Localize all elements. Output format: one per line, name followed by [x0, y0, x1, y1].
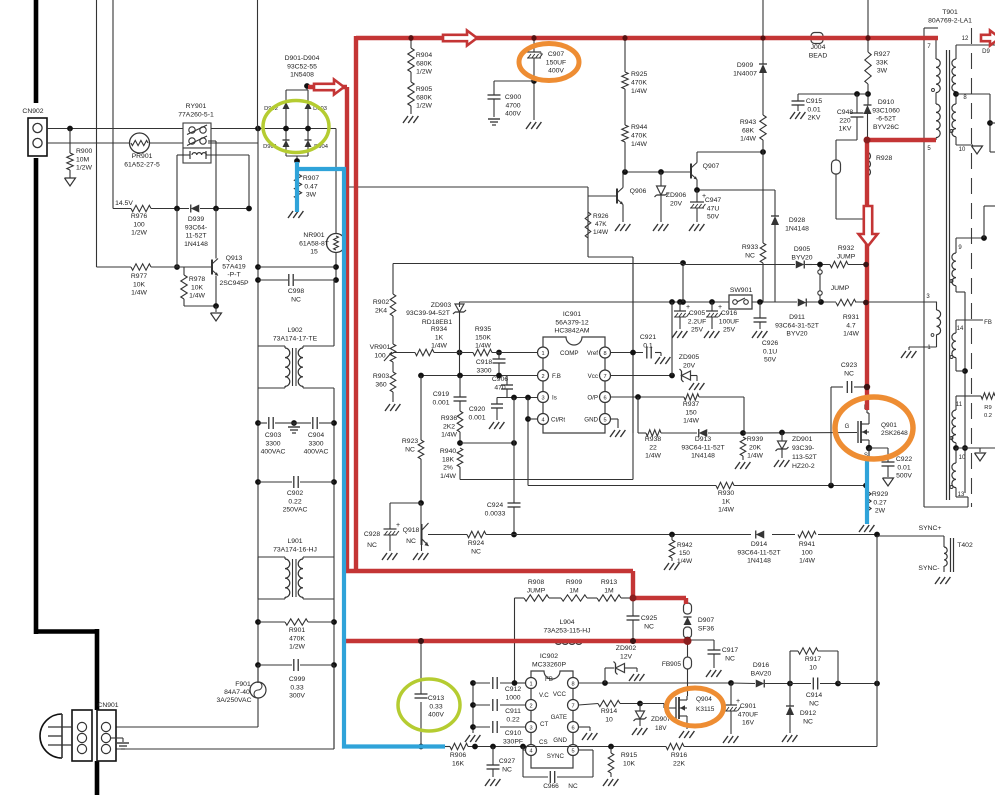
ground T901 pin1 [901, 351, 906, 358]
highlight red arrow bridge [314, 80, 344, 95]
svg-text:1/4W: 1/4W [431, 343, 447, 350]
wire T901 pin13 [956, 488, 968, 507]
svg-text:1N4148: 1N4148 [747, 558, 771, 565]
highlight green ellipse bridge [263, 101, 329, 153]
wire C917 branch [684, 637, 714, 650]
capacitor C922 [869, 448, 912, 480]
diode D910 [864, 99, 901, 140]
wire gate branch [638, 397, 646, 433]
svg-text:250VAC: 250VAC [283, 507, 308, 514]
resistor R931 [836, 299, 869, 337]
svg-text:400V: 400V [428, 712, 444, 719]
svg-text:R929: R929 [872, 491, 888, 498]
ground C921 [655, 357, 660, 364]
wire bottom bus [445, 744, 877, 750]
wire y187 to R926 [344, 187, 588, 257]
resistor R928 coil [867, 152, 893, 176]
resistor R940 [440, 440, 463, 480]
svg-text:1/2W: 1/2W [76, 165, 92, 172]
wire T901 pin5 [927, 93, 936, 152]
svg-text:L902: L902 [287, 327, 302, 334]
svg-text:10: 10 [605, 716, 613, 723]
svg-text:2%: 2% [443, 465, 453, 472]
transistor Q918 [403, 503, 429, 551]
svg-text:R978: R978 [189, 276, 205, 283]
wire COMP row [393, 350, 502, 356]
wire T901 pin1 [909, 335, 937, 351]
svg-text:D914: D914 [751, 541, 767, 548]
svg-text:R938: R938 [645, 436, 661, 443]
svg-text:61A52-27-5: 61A52-27-5 [124, 161, 160, 168]
ground C905 [672, 331, 677, 338]
wire Vcc pin7 [611, 302, 675, 378]
capacitor C902 [258, 476, 334, 514]
ground R939 [735, 462, 740, 469]
ground GND pin5 [610, 419, 625, 437]
svg-text:1: 1 [541, 351, 544, 357]
svg-text:0.22: 0.22 [288, 498, 301, 505]
svg-text:C913: C913 [428, 695, 444, 702]
wire T901 pin7 [927, 38, 936, 59]
svg-text:CT: CT [540, 721, 548, 728]
svg-text:3A/250VAC: 3A/250VAC [216, 697, 251, 704]
ground C901 [723, 736, 728, 743]
svg-text:Q904: Q904 [696, 696, 712, 703]
svg-text:R940: R940 [440, 448, 456, 455]
svg-text:R915: R915 [621, 752, 637, 759]
ground R907 [288, 211, 293, 218]
svg-text:68K: 68K [742, 127, 755, 134]
svg-text:SW901: SW901 [730, 287, 753, 294]
svg-text:1N5408: 1N5408 [290, 72, 314, 79]
wire T901 pin11 [956, 395, 981, 397]
diode bridge D901-D904 [263, 55, 329, 164]
svg-text:C910: C910 [505, 730, 521, 737]
svg-text:R927: R927 [874, 51, 890, 58]
svg-text:1/4W: 1/4W [843, 331, 859, 338]
resistor R909 [561, 579, 587, 601]
capacitor C918 [476, 353, 506, 376]
highlight blue path [296, 162, 867, 747]
wire R926 to x633 [588, 257, 633, 433]
svg-text:D916: D916 [753, 662, 769, 669]
svg-text:BYV20: BYV20 [786, 331, 807, 338]
svg-text:0.01: 0.01 [897, 464, 910, 471]
svg-text:+: + [539, 51, 543, 58]
wire sense row y485 [528, 483, 869, 489]
svg-text:400VAC: 400VAC [304, 449, 329, 456]
svg-text:10K: 10K [191, 284, 204, 291]
svg-text:C900: C900 [505, 94, 521, 101]
ground C926 [752, 331, 757, 338]
wire C999 to CN901 [116, 665, 334, 749]
svg-text:GATE: GATE [551, 714, 567, 721]
resistor R923 [402, 376, 424, 506]
svg-text:R925: R925 [631, 71, 647, 78]
svg-text:R976: R976 [131, 213, 147, 220]
capacitor C928 [364, 503, 421, 551]
svg-text:R935: R935 [475, 326, 491, 333]
wire pin1 FB feed [515, 598, 526, 683]
svg-text:73A174-17-TE: 73A174-17-TE [273, 335, 318, 342]
svg-text:8: 8 [603, 351, 606, 357]
svg-text:C947: C947 [705, 197, 721, 204]
wire R902 top [392, 264, 394, 295]
svg-text:T901: T901 [942, 9, 958, 16]
wire OP row [611, 394, 685, 400]
wire Q907 collector [697, 149, 766, 155]
transformer T901 frame [924, 9, 972, 507]
svg-text:BYV20: BYV20 [791, 254, 812, 261]
highlight orange ellipse C907 [519, 44, 579, 81]
svg-text:2K2: 2K2 [443, 423, 455, 430]
wire sync minus [943, 566, 945, 572]
svg-text:330PF: 330PF [503, 738, 523, 745]
resistor R906 [450, 743, 468, 767]
diode D907 [684, 603, 715, 638]
svg-text:12: 12 [962, 36, 969, 42]
svg-text:D901-D904: D901-D904 [285, 55, 320, 62]
svg-text:Q901: Q901 [881, 422, 897, 429]
svg-text:NC: NC [502, 766, 512, 773]
potentiometer VR901 [370, 344, 396, 362]
fuse F901 [216, 665, 266, 727]
wire bridge minus [296, 161, 298, 169]
svg-text:NC: NC [291, 296, 301, 303]
wire x334 rail [331, 280, 337, 749]
svg-text:R943: R943 [740, 119, 756, 126]
svg-text:R913: R913 [601, 579, 617, 586]
svg-text:L904: L904 [559, 619, 574, 626]
svg-text:0.0033: 0.0033 [485, 510, 506, 517]
svg-text:O/P: O/P [587, 395, 598, 402]
wire F901 to CN901 [116, 726, 258, 728]
resistor R913 [597, 579, 621, 601]
wire D905 row [683, 262, 866, 268]
wire Vcc bus [460, 299, 938, 305]
svg-text:1N4148: 1N4148 [184, 241, 208, 248]
wire Q906 row [622, 169, 691, 175]
op-amp IC901 [538, 311, 611, 433]
resistor R917 [790, 648, 838, 684]
ground R900 [65, 178, 76, 186]
transformer T402 [944, 538, 973, 572]
svg-text:1/2W: 1/2W [416, 103, 432, 110]
svg-text:1KV: 1KV [839, 126, 852, 133]
svg-text:SYNC-: SYNC- [918, 565, 939, 572]
svg-text:RD18EB1: RD18EB1 [422, 319, 452, 326]
capacitor C906 [492, 376, 513, 398]
wire x528 sense [525, 398, 531, 486]
svg-text:500V: 500V [896, 473, 912, 480]
svg-text:93C64-11-52T: 93C64-11-52T [681, 444, 724, 451]
svg-text:R906: R906 [450, 752, 466, 759]
svg-text:IC901: IC901 [563, 311, 581, 318]
resistor R927 [865, 35, 891, 105]
svg-text:Q906: Q906 [630, 188, 647, 195]
svg-text:3300: 3300 [476, 367, 491, 374]
capacitor C948 [837, 91, 864, 140]
ground C947 [689, 224, 694, 231]
resistor R905 [408, 82, 433, 114]
wire x258 rail low [255, 388, 261, 683]
wire T901 y448 [956, 448, 995, 452]
svg-text:VCC: VCC [553, 691, 567, 698]
svg-text:JUMP: JUMP [527, 587, 546, 594]
svg-text:20V: 20V [670, 200, 683, 207]
svg-text:HC3842AM: HC3842AM [554, 328, 589, 335]
svg-text:NC: NC [725, 655, 735, 662]
resistor R924 [467, 531, 486, 555]
resistor R932 [830, 245, 856, 268]
svg-text:D939: D939 [188, 216, 204, 223]
resistor R926 [585, 212, 609, 238]
svg-text:C998: C998 [288, 288, 304, 295]
svg-text:-P-T: -P-T [227, 272, 240, 279]
winding T901 s1 [952, 45, 995, 92]
svg-text:C902: C902 [287, 490, 303, 497]
connector CN901 [72, 702, 119, 761]
winding T901 p1 [932, 59, 941, 93]
ground ZD902 [629, 674, 634, 681]
svg-text:1/4W: 1/4W [799, 558, 815, 565]
winding T901 s6 [950, 448, 956, 489]
wire sync vert x877 [876, 536, 878, 747]
resistor R903 [373, 362, 396, 402]
svg-text:6: 6 [571, 726, 574, 732]
svg-text:1: 1 [529, 682, 532, 688]
svg-text:D905: D905 [794, 246, 810, 253]
svg-text:80A769-2-LA1: 80A769-2-LA1 [928, 17, 972, 24]
highlight orange ellipse Q904 [667, 688, 724, 726]
wire mains heavy line upper [34, 0, 97, 710]
svg-text:2K4: 2K4 [375, 307, 387, 314]
wire T901 pin9 [956, 206, 995, 251]
svg-text:2SC945P: 2SC945P [219, 280, 249, 287]
resistor R939 [740, 436, 763, 460]
svg-text:0.22: 0.22 [506, 716, 519, 723]
svg-text:RY901: RY901 [186, 103, 207, 110]
transistor Q901 [845, 388, 908, 459]
svg-text:2.2UF: 2.2UF [688, 318, 707, 325]
svg-text:150UF: 150UF [546, 59, 566, 66]
svg-text:1/4W: 1/4W [475, 343, 491, 350]
inductor L904 [543, 619, 590, 644]
svg-text:1M: 1M [569, 587, 579, 594]
svg-text:C916: C916 [721, 310, 737, 317]
svg-text:G: G [845, 424, 850, 430]
capacitor C913 [415, 694, 445, 719]
svg-text:1/4W: 1/4W [631, 88, 647, 95]
svg-text:10M: 10M [76, 156, 90, 163]
wire cap ladder left [470, 680, 476, 733]
svg-text:JUMP: JUMP [831, 285, 850, 292]
bead J004 [809, 33, 828, 60]
svg-text:47U: 47U [707, 205, 720, 212]
ground D912 [782, 735, 787, 742]
capacitor C924 [485, 502, 521, 517]
svg-text:0.33: 0.33 [429, 703, 442, 710]
ground CN901 [111, 738, 129, 749]
capacitor C923 [831, 362, 870, 486]
wire Q907 emitter row [694, 187, 775, 193]
diode D909 [733, 62, 767, 115]
svg-text:1/4W: 1/4W [441, 432, 457, 439]
svg-text:93C64-11-52T: 93C64-11-52T [737, 549, 780, 556]
svg-text:1/2W: 1/2W [289, 644, 305, 651]
ground R905 [403, 116, 408, 123]
capacitor C925 [627, 598, 658, 644]
svg-text:R928: R928 [876, 155, 892, 162]
posistor PR901 [124, 133, 160, 168]
svg-text:77A260-5-1: 77A260-5-1 [178, 111, 214, 118]
ground C915 [790, 112, 795, 119]
svg-text:2KV: 2KV [808, 115, 821, 122]
svg-text:NC: NC [568, 783, 578, 790]
svg-text:3300: 3300 [265, 440, 280, 447]
wire sync plus [877, 536, 944, 547]
ground C917 [706, 670, 711, 677]
wire relay coil left [177, 155, 190, 209]
wire Is row [497, 395, 538, 401]
wire x683 link [680, 260, 686, 302]
diode D911 [775, 299, 819, 338]
wire row 263 [393, 263, 683, 265]
wire R940 bottom row [460, 257, 633, 480]
svg-text:R916: R916 [671, 752, 687, 759]
svg-text:1K: 1K [722, 498, 731, 505]
capacitor C910 [473, 721, 526, 745]
svg-text:1/4W: 1/4W [593, 229, 609, 236]
ground C903 C904 [288, 423, 300, 433]
wire sync row y534 [428, 532, 880, 538]
diode D905 [791, 246, 812, 269]
svg-text:10: 10 [959, 147, 966, 153]
svg-text:IC902: IC902 [540, 653, 558, 660]
capacitor C927 [487, 747, 516, 778]
svg-text:470K: 470K [631, 80, 647, 87]
svg-text:FB905: FB905 [662, 661, 682, 668]
svg-text:C901: C901 [740, 703, 756, 710]
svg-text:8: 8 [571, 682, 574, 688]
zener ZD901 [776, 433, 817, 471]
capacitor C903 [258, 417, 290, 456]
svg-text:1N4148: 1N4148 [785, 225, 809, 232]
svg-text:20V: 20V [683, 362, 696, 369]
wire gate row [743, 430, 857, 436]
resistor R916 [666, 743, 687, 767]
svg-text:C919: C919 [433, 391, 449, 398]
resistor R936 [441, 401, 463, 443]
svg-text:0.2: 0.2 [984, 413, 992, 419]
svg-text:300V: 300V [289, 693, 305, 700]
svg-text:1/4W: 1/4W [631, 141, 647, 148]
ground R942 [664, 563, 669, 570]
wire top vert x763 [762, 0, 764, 64]
svg-text:R934: R934 [431, 326, 447, 333]
svg-text:NC: NC [844, 370, 854, 377]
svg-text:C915: C915 [806, 98, 822, 105]
winding T901 s5 [950, 396, 963, 451]
svg-text:2SK2648: 2SK2648 [881, 430, 908, 437]
svg-text:1N4007: 1N4007 [733, 70, 757, 77]
svg-text:93C64-: 93C64- [185, 224, 207, 231]
svg-text:93C64-31-52T: 93C64-31-52T [775, 322, 819, 329]
wire AC line2 [47, 142, 183, 144]
diode D914 [737, 531, 780, 565]
svg-text:25V: 25V [723, 327, 736, 334]
winding T901 p2 [936, 104, 940, 138]
svg-text:84A7-40: 84A7-40 [224, 689, 250, 696]
svg-text:5: 5 [603, 418, 606, 424]
svg-text:C918: C918 [476, 359, 492, 366]
svg-text:Vref: Vref [587, 350, 598, 357]
svg-text:NC: NC [745, 252, 755, 259]
svg-text:F.B: F.B [552, 373, 561, 380]
capacitor C905 [674, 302, 706, 334]
highlight red B+ path [308, 35, 938, 645]
svg-text:+: + [396, 522, 400, 529]
svg-text:13: 13 [958, 492, 965, 498]
resistor R902 [373, 294, 396, 344]
bead FB on C948 branch [832, 140, 867, 219]
ground R929 [859, 525, 864, 532]
zener ZD905 [679, 354, 700, 382]
capacitor C916 [706, 302, 739, 334]
svg-text:D913: D913 [695, 436, 711, 443]
inductor L901 [258, 538, 334, 599]
svg-text:JUMP: JUMP [837, 253, 856, 260]
op-amp IC902 [526, 653, 579, 768]
svg-text:R939: R939 [747, 436, 763, 443]
capacitor C919 [432, 376, 466, 407]
resistor R933 [742, 152, 766, 302]
svg-text:MC33260P: MC33260P [532, 661, 566, 668]
zener ZD902 [605, 645, 637, 683]
svg-text:15: 15 [310, 249, 318, 256]
wire aux row 684 [731, 681, 880, 687]
svg-text:6: 6 [603, 396, 606, 402]
svg-text:33K: 33K [876, 59, 889, 66]
wire top vert x868 [867, 0, 869, 38]
resistor R937 [683, 394, 744, 433]
red arrow out top [981, 31, 995, 46]
svg-text:NC: NC [471, 548, 481, 555]
svg-text:2: 2 [529, 704, 532, 710]
wire T901 FB [956, 320, 992, 326]
svg-text:93C1060: 93C1060 [872, 107, 900, 114]
wire x258 rail mid [257, 346, 259, 388]
svg-text:NC: NC [803, 718, 813, 725]
resistor R9xx out [981, 393, 995, 419]
svg-text:D9: D9 [982, 49, 990, 55]
svg-text:C914: C914 [806, 692, 822, 699]
resistor R908 [524, 579, 549, 601]
bead FB905 [662, 640, 692, 696]
svg-text:12V: 12V [620, 653, 633, 660]
ground Q904 [679, 724, 694, 738]
svg-text:400VAC: 400VAC [261, 449, 286, 456]
svg-text:150: 150 [685, 409, 697, 416]
capacitor C912 [473, 677, 526, 701]
ground C920 [489, 422, 494, 429]
svg-text:ZD905: ZD905 [679, 354, 700, 361]
ground ZD905 [689, 383, 694, 390]
svg-text:C920: C920 [469, 406, 485, 413]
transistor Q906 [617, 172, 647, 205]
wire vert x96 [96, 0, 98, 267]
svg-text:680K: 680K [416, 60, 432, 67]
